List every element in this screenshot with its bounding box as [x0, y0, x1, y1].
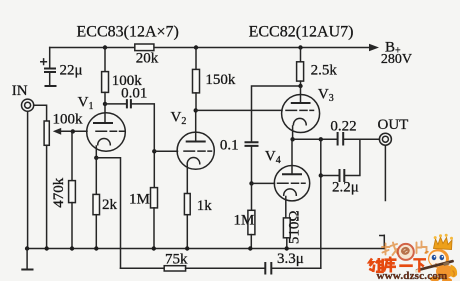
ground for 22μ: [45, 85, 57, 87]
watermark mascot pen: [415, 261, 452, 271]
resistor 2k lead top: [95, 158, 97, 195]
tube V2 cathode lead: [186, 165, 188, 194]
resistor 100k body: [102, 72, 109, 93]
tube V2 cathode arc: [187, 157, 200, 163]
svg-text:0.22: 0.22: [330, 119, 356, 135]
wire output node: [293, 138, 337, 140]
tube V1 cathode lead: [95, 146, 97, 158]
label + polarity: [41, 59, 47, 65]
resistor 1k lead bottom: [186, 215, 188, 249]
resistor 1M (V2 grid) lead top: [153, 151, 155, 187]
tube V4 cathode lead: [285, 197, 287, 218]
wire jack to pot: [34, 105, 47, 121]
svg-text:0.1: 0.1: [220, 138, 239, 154]
wire 75k to 3.3μ: [186, 267, 265, 269]
svg-text:100k: 100k: [53, 112, 84, 128]
node 2.2μ junction: [319, 173, 323, 177]
arrowhead B+: [369, 44, 379, 52]
capacitor 0.1 plates: [245, 142, 259, 146]
resistor 2.5k (V3 plate) lead top: [300, 48, 302, 62]
resistor 470k body: [69, 181, 76, 203]
resistor 2k body: [93, 194, 100, 214]
wire V1 anode to 0.01: [105, 103, 126, 105]
capacitor 0.01 plates: [127, 99, 131, 108]
node V1 anode junction: [103, 102, 107, 106]
node junction rail/150k: [194, 45, 198, 49]
resistor 150k lead bottom: [195, 93, 197, 111]
wire 0.1 to V4 grid: [251, 147, 253, 184]
wire 3.3μ to output tap: [271, 267, 321, 269]
watermark 找 glyph faded: [382, 243, 398, 256]
wire 0.01 to V2 grid: [132, 104, 155, 151]
tube V4 plate: [282, 173, 302, 175]
svg-text:2.2μ: 2.2μ: [332, 180, 359, 196]
svg-text:1M: 1M: [129, 192, 150, 208]
wire V1 cathode to feedback drop: [96, 158, 120, 268]
wire B+ supply rail: [50, 47, 371, 49]
node output tap junction: [319, 137, 323, 141]
capacitor 2.2μ plates: [340, 169, 345, 182]
arrowhead wiper: [53, 128, 61, 135]
wire grid junction to V2: [154, 150, 177, 152]
resistor 1M (V4 grid) lead top: [251, 183, 253, 210]
tube V3 envelope: [282, 95, 320, 133]
resistor 1M (V4) body: [248, 210, 255, 234]
wire to 2.2μ: [321, 175, 339, 177]
node V4 grid junction: [249, 181, 253, 185]
node V2 grid junction: [152, 149, 156, 153]
capacitor C1 22μ lead bottom: [49, 73, 51, 85]
resistor 470k lead bottom: [71, 203, 73, 249]
svg-text:150k: 150k: [205, 72, 236, 88]
watermark 片 glyph faded: [417, 242, 427, 254]
svg-text:75k: 75k: [165, 251, 188, 267]
node junction rail/2.5k: [298, 45, 302, 49]
tube V4 cathode arc: [284, 189, 297, 195]
tube V1 plate lead: [104, 104, 106, 123]
svg-text:280V: 280V: [381, 52, 412, 67]
tube V4 envelope: [274, 166, 309, 201]
tube V1 grid dashes: [96, 130, 124, 132]
svg-text:ECC82(12AU7): ECC82(12AU7): [249, 24, 354, 41]
wire V3 anode tap to 0.1: [252, 86, 301, 141]
wire 2.2μ up to output wire: [344, 139, 360, 175]
svg-text:IN: IN: [12, 83, 28, 99]
capacitor C1 22μ plates: [44, 69, 56, 73]
resistor 470k lead top: [71, 131, 73, 180]
node V3 anode junction: [298, 84, 302, 88]
resistor 1M (V4) lead bottom: [250, 235, 252, 249]
resistor 75k body: [164, 266, 185, 271]
resistor 2.5k lead bottom: [300, 81, 302, 86]
svg-text:OUT: OUT: [378, 117, 409, 133]
capacitor C1 22μ lead top: [49, 48, 51, 68]
node junction rail/100k: [103, 45, 107, 49]
svg-text:470k: 470k: [51, 177, 67, 208]
resistor 510Ω body: [283, 218, 290, 238]
svg-text:1M: 1M: [234, 213, 255, 229]
wire V2 anode to V3 grid: [196, 109, 282, 111]
tube V4 plate lead: [291, 139, 293, 174]
svg-text:1k: 1k: [197, 198, 213, 214]
wire 0.22 to OUT jack: [343, 138, 379, 140]
svg-text:2.5k: 2.5k: [311, 63, 338, 79]
tube V1 cathode arc: [98, 139, 111, 145]
node wiper/470k junction: [71, 129, 75, 133]
resistor 100k (V1 plate load) lead top: [104, 48, 106, 72]
wire V4 grid junction to tube: [252, 182, 275, 184]
potentiometer 100k body: [44, 121, 49, 145]
svg-text:510Ω: 510Ω: [286, 210, 302, 244]
resistor 1M lead bottom: [153, 208, 155, 249]
capacitor 3.3μ plates: [265, 262, 271, 275]
resistor 150k body: [193, 69, 200, 93]
tube V2 plate lead: [195, 110, 197, 141]
resistor 510Ω lead bottom: [286, 238, 288, 249]
node V2 anode junction: [194, 108, 198, 112]
resistor 100k lead bottom: [104, 92, 106, 104]
capacitor 0.22 plates: [338, 132, 344, 146]
connector OUT jack: [379, 133, 391, 145]
resistor 2k lead bottom: [95, 215, 97, 249]
potentiometer lead bottom: [46, 145, 48, 248]
resistor 150k (V2 plate load) lead top: [195, 48, 197, 70]
resistor 1M body: [151, 188, 158, 208]
wire OUT jack sleeve down (broken in scan): [384, 145, 386, 200]
tube V2 grid dashes: [184, 150, 212, 152]
tube V3 plate: [291, 102, 311, 104]
tube V1 envelope: [87, 113, 126, 152]
tube V2 envelope: [177, 132, 214, 169]
watermark 维库一下 text (drawn): [369, 257, 426, 273]
node rail junctions: [25, 246, 29, 250]
svg-text:0.01: 0.01: [121, 85, 147, 101]
wire ground rail: [27, 248, 384, 250]
wire wiper to V1 grid: [60, 130, 88, 132]
svg-text:20k: 20k: [136, 51, 159, 67]
watermark mascot body: [425, 234, 457, 281]
svg-text:22μ: 22μ: [60, 63, 83, 79]
resistor 20k body (series in rail): [135, 44, 154, 51]
node V3 cathode / V4 anode junction: [290, 137, 294, 141]
tube V4 grid dashes: [278, 182, 306, 184]
ground symbol: [26, 249, 28, 269]
tube V3 grid dashes: [286, 109, 314, 111]
tube V3 cathode arc: [293, 118, 306, 124]
svg-text:ECC83(12A×7): ECC83(12A×7): [77, 24, 179, 41]
resistor 2.5k body: [297, 62, 304, 81]
resistor 1k body: [184, 194, 190, 215]
tube V2 plate: [186, 141, 206, 143]
wire jack sleeve to ground rail: [27, 111, 29, 248]
node V1 cathode junction: [94, 156, 98, 160]
tube V3 cathode lead: [292, 126, 294, 139]
svg-text:3.3μ: 3.3μ: [277, 251, 304, 267]
wire feedback bottom run: [121, 267, 164, 269]
watermark seal: [398, 244, 414, 260]
tube V1 plate: [93, 122, 113, 124]
connector IN jack: [22, 99, 34, 111]
svg-text:2k: 2k: [102, 197, 118, 213]
wire rail right end up (broken in scan): [380, 235, 385, 248]
wire output tap down to 2.2μ level and feedback: [320, 139, 322, 268]
svg-text:www.dzsc.com: www.dzsc.com: [377, 270, 448, 281]
tube V3 plate lead: [300, 86, 302, 103]
